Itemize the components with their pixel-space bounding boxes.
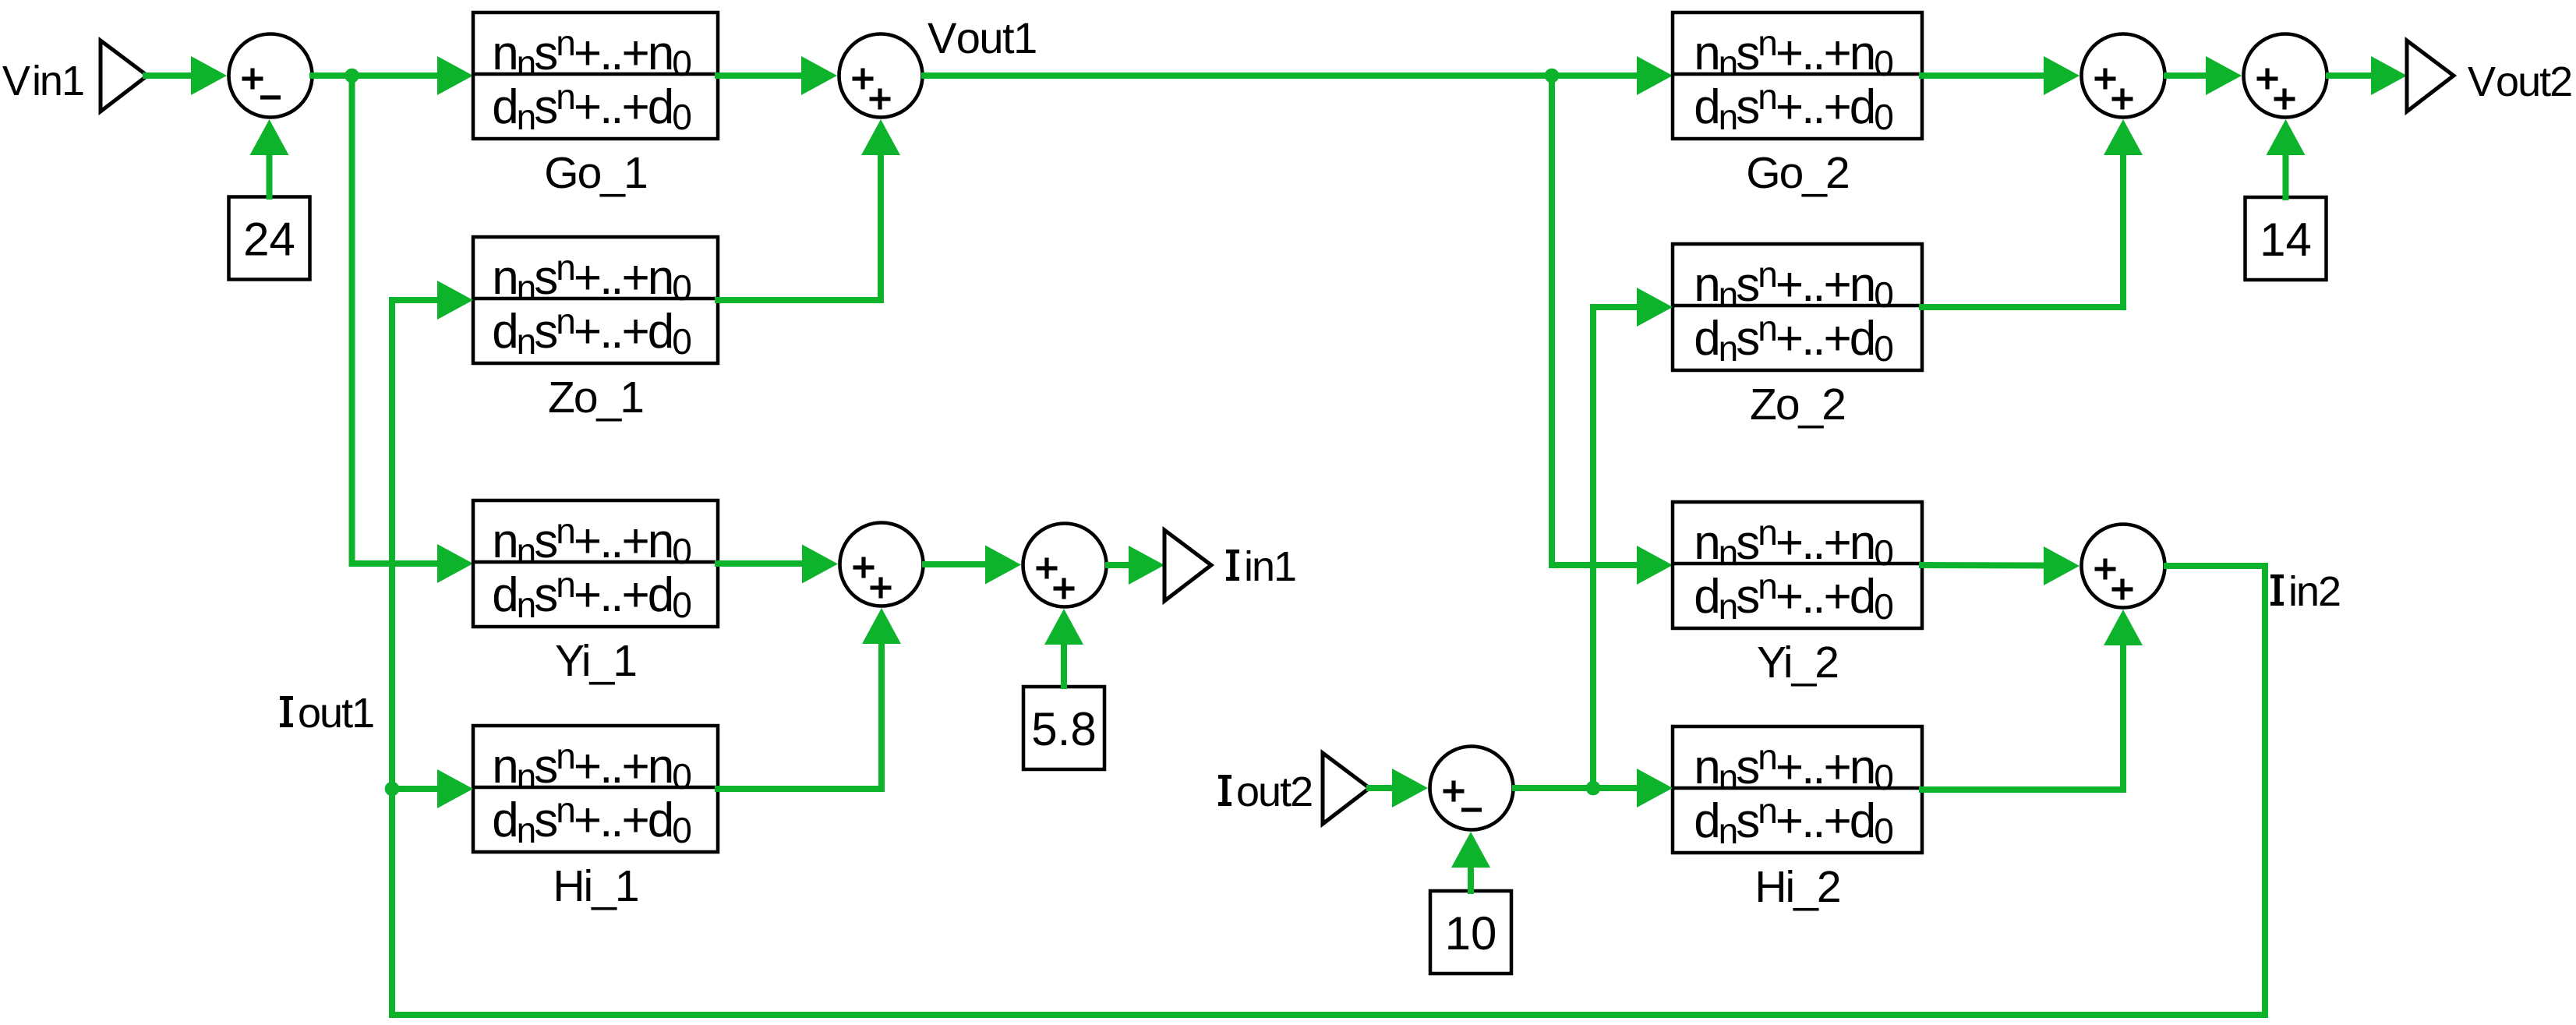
arrowhead into port Iin1 <box>1129 546 1164 585</box>
sum junction S5 <box>2082 34 2165 118</box>
gain block G14 value 14 <box>2246 197 2327 280</box>
wire gain 24 to sum S1 <box>267 155 273 196</box>
arrowhead into sum S2 bottom <box>861 119 900 155</box>
wire sum S4 to port Iin1 <box>1108 562 1129 568</box>
wire Go_2 to sum S5 <box>1922 72 2044 79</box>
wire gain 5.8 to sum S4 <box>1061 645 1067 686</box>
transfer function block Zo_1 <box>473 237 718 363</box>
wire Zo_1 output up to sum S2 <box>718 156 881 300</box>
wire Iout2 to sum S7 <box>1369 785 1392 791</box>
arrowhead into sum S8 bottom <box>2104 610 2143 645</box>
sum junction S2 <box>839 34 923 118</box>
arrowhead into sum S6 bottom <box>2267 119 2306 155</box>
wire gain 14 to sum S6 <box>2283 155 2289 197</box>
svg-text:in1: in1 <box>1244 543 1295 590</box>
sum junction S3 <box>840 523 924 606</box>
sum junction S6 <box>2244 34 2327 118</box>
arrowhead into sum S1 <box>191 56 227 95</box>
label Iin2 <box>2270 568 2340 615</box>
label Iin1 <box>1226 543 1295 590</box>
wire Hi_1 output up to sum S3 <box>718 645 882 789</box>
transfer function block Hi_1 <box>473 726 718 852</box>
gain block G24 value 24 <box>229 197 310 280</box>
junction node on Vout1 wire <box>1545 69 1560 83</box>
transfer function block Yi_1 <box>473 500 718 627</box>
wire Vin1 to sum S1 <box>146 72 191 79</box>
transfer function block Go_2 <box>1673 12 1922 139</box>
sum junction S7 <box>1430 747 1514 830</box>
arrowhead into Go_1 <box>437 56 473 95</box>
wire feedback to Zo_2 input <box>1593 304 1637 310</box>
wire feedback to Hi_1 input <box>392 786 437 792</box>
arrowhead into Zo_1 <box>437 281 473 320</box>
svg-text:14: 14 <box>2260 214 2312 266</box>
wire branch down to Yi_1 input <box>352 76 438 564</box>
arrowhead into sum S8 <box>2044 546 2080 585</box>
svg-text:Hi_1: Hi_1 <box>553 861 638 911</box>
wire Hi_2 output up to sum S8 <box>1922 646 2123 790</box>
wire sum S1 to Go_1 <box>313 72 437 79</box>
junction node at sum S1 output <box>345 69 359 83</box>
svg-text:Go_2: Go_2 <box>1746 148 1848 198</box>
wire gain 10 to sum S7 <box>1468 868 1474 891</box>
svg-text:24: 24 <box>243 214 295 266</box>
arrowhead into Yi_1 <box>437 544 473 583</box>
gain block G10 value 10 <box>1430 891 1511 974</box>
wire branch up to Zo_2 input <box>1590 307 1596 788</box>
svg-text:out1: out1 <box>298 690 373 737</box>
arrowhead into sum S7 <box>1392 769 1428 808</box>
svg-text:Go_1: Go_1 <box>544 148 646 198</box>
wire branch down to Yi_2 input <box>1552 76 1637 565</box>
wire feedback rail up to Zo_1 and Hi_1 inputs <box>389 300 395 1015</box>
arrowhead into sum S5 <box>2044 56 2080 95</box>
svg-text:Vin1: Vin1 <box>2 58 83 104</box>
svg-text:Vout1: Vout1 <box>928 13 1037 62</box>
svg-text:out2: out2 <box>1236 769 1312 815</box>
wire feedback to Zo_1 input <box>392 297 437 303</box>
svg-text:Zo_1: Zo_1 <box>548 373 643 422</box>
arrowhead into sum S7 bottom <box>1451 832 1490 868</box>
svg-text:Vout2: Vout2 <box>2468 58 2571 105</box>
transfer function block Go_1 <box>473 12 718 139</box>
arrowhead into port Vout2 <box>2371 56 2407 95</box>
port output Vout2 <box>2407 41 2454 111</box>
arrowhead into sum S6 <box>2206 56 2242 95</box>
sum junction S1 <box>229 34 313 118</box>
wire sum S5 to sum S6 <box>2167 72 2206 79</box>
arrowhead into sum S1 bottom <box>250 119 289 155</box>
wire sum S6 to port Vout2 <box>2329 72 2371 79</box>
arrowhead into sum S4 <box>985 546 1021 585</box>
transfer function block Hi_2 <box>1673 726 1922 853</box>
junction node at Hi_1 input branch <box>385 782 400 797</box>
wire Vout1 from sum S2 to Go_2 <box>924 72 1637 79</box>
wire Iin2 feedback from sum S8 to bottom rail <box>2167 566 2265 1015</box>
sum junction S8 <box>2082 525 2165 608</box>
svg-text:Yi_1: Yi_1 <box>555 636 636 686</box>
svg-text:Hi_2: Hi_2 <box>1754 862 1839 912</box>
svg-text:5.8: 5.8 <box>1031 703 1096 755</box>
arrowhead into Yi_2 <box>1637 546 1673 585</box>
svg-text:in2: in2 <box>2288 568 2340 615</box>
port input Iout2 <box>1323 753 1369 824</box>
svg-text:10: 10 <box>1445 907 1497 960</box>
arrowhead into Zo_2 <box>1637 288 1673 327</box>
wire sum S7 to Hi_2 <box>1515 785 1637 791</box>
port output Iin1 <box>1164 530 1211 601</box>
arrowhead into sum S4 bottom <box>1044 609 1083 645</box>
wire sum S3 to sum S4 <box>925 561 985 567</box>
wire Yi_2 to sum S8 <box>1922 562 2044 569</box>
arrowhead into sum S5 bottom <box>2104 119 2143 155</box>
label Iout1 <box>280 690 373 737</box>
gain block G58 value 5.8 <box>1023 687 1104 769</box>
svg-text:Yi_2: Yi_2 <box>1757 638 1838 687</box>
arrowhead into Go_2 <box>1637 56 1673 95</box>
arrowhead into Hi_2 <box>1637 769 1673 808</box>
transfer function block Yi_2 <box>1673 502 1922 628</box>
transfer function block Zo_2 <box>1673 244 1922 370</box>
junction node at Hi_2 input branch <box>1586 781 1601 796</box>
arrowhead into sum S3 <box>802 545 838 584</box>
port input Vin1 <box>101 41 147 111</box>
label Iout2 <box>1218 769 1312 815</box>
wire Yi_1 to sum S3 <box>718 560 802 567</box>
wire Go_1 to sum S2 <box>718 72 801 79</box>
wire Zo_2 output up to sum S5 <box>1922 156 2123 307</box>
sum junction S4 <box>1023 524 1107 607</box>
arrowhead into sum S2 <box>801 56 837 95</box>
arrowhead into sum S3 bottom <box>862 608 901 644</box>
svg-text:Zo_2: Zo_2 <box>1750 380 1845 429</box>
arrowhead into Hi_1 <box>437 769 473 808</box>
wire bottom feedback rail <box>392 1012 2265 1018</box>
